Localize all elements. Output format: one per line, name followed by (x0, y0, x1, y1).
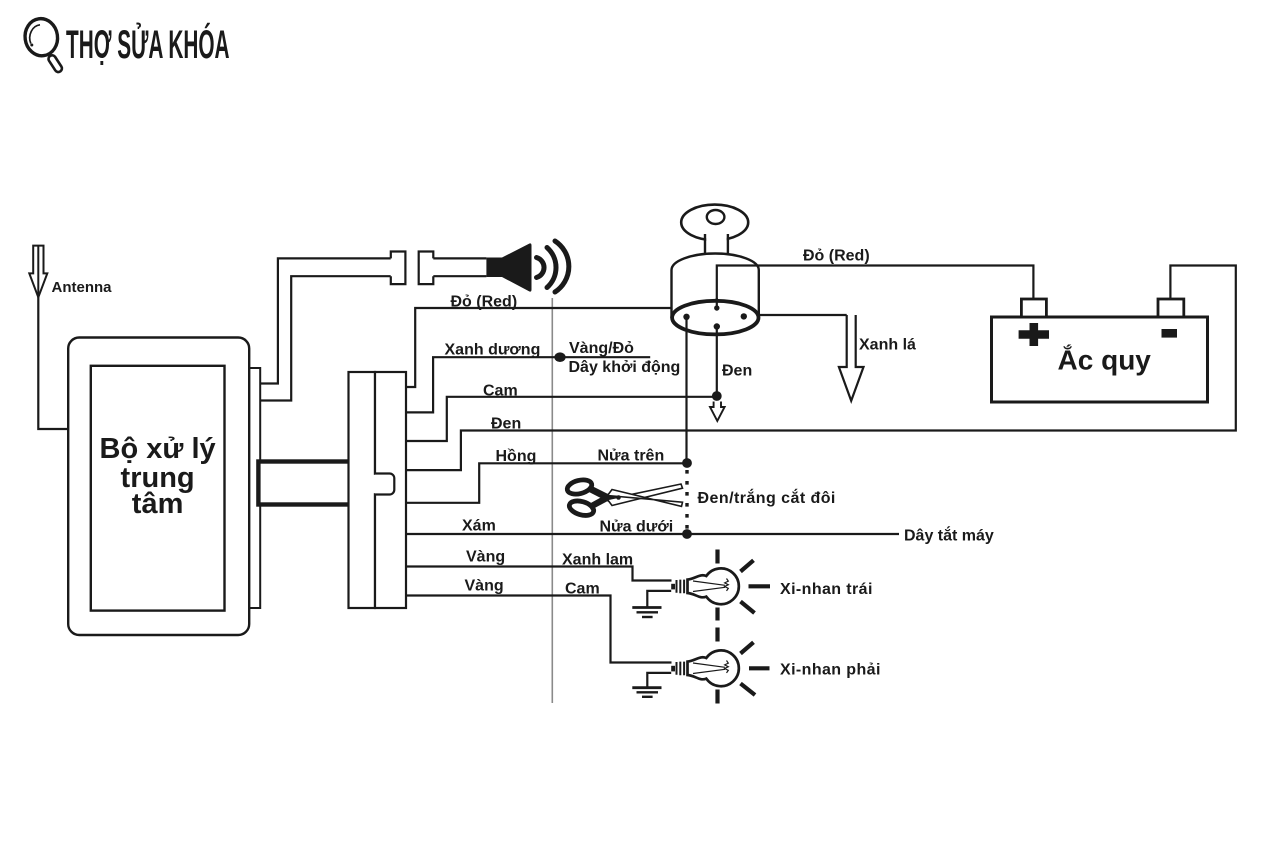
svg-text:Nửa dưới: Nửa dưới (600, 519, 674, 536)
svg-text:Xi-nhan phải: Xi-nhan phải (780, 662, 881, 679)
svg-text:Ắc quy: Ắc quy (1058, 345, 1152, 376)
svg-text:Hồng: Hồng (496, 448, 537, 465)
svg-text:THỢ SỬA KHÓA: THỢ SỬA KHÓA (66, 22, 230, 67)
svg-text:Đen: Đen (722, 363, 752, 380)
svg-text:Xanh lam: Xanh lam (562, 552, 633, 569)
svg-text:Vàng/Đỏ: Vàng/Đỏ (569, 340, 634, 357)
svg-text:Vàng: Vàng (466, 549, 505, 566)
svg-text:Đen: Đen (491, 416, 521, 433)
svg-text:Vàng: Vàng (465, 578, 504, 595)
svg-text:Đỏ (Red): Đỏ (Red) (803, 248, 870, 265)
svg-text:Đen/trắng cắt đôi: Đen/trắng cắt đôi (698, 488, 836, 507)
svg-text:Dây tắt máy: Dây tắt máy (904, 526, 994, 545)
svg-text:Bộ xử lý: Bộ xử lý (100, 433, 216, 465)
svg-text:Xanh dương: Xanh dương (445, 342, 541, 359)
svg-text:Xi-nhan trái: Xi-nhan trái (780, 581, 873, 598)
svg-text:tâm: tâm (132, 488, 184, 520)
svg-text:Cam: Cam (483, 382, 518, 399)
svg-text:Đỏ (Red): Đỏ (Red) (451, 294, 518, 311)
svg-text:Cam: Cam (565, 581, 600, 598)
svg-text:Antenna: Antenna (52, 279, 113, 296)
svg-text:Xanh lá: Xanh lá (859, 337, 916, 354)
svg-text:Xám: Xám (462, 518, 496, 535)
svg-text:Nửa trên: Nửa trên (598, 448, 665, 465)
svg-text:Dây khởi động: Dây khởi động (569, 359, 681, 376)
